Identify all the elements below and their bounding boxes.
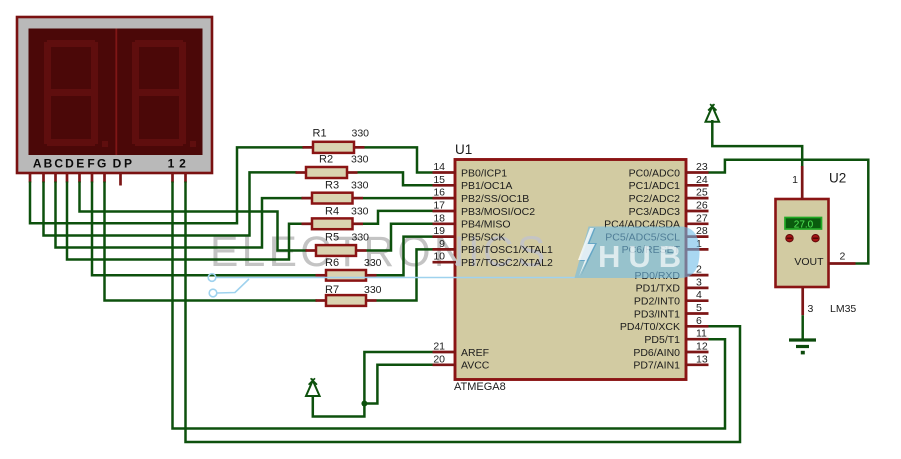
U2 pin 2 stub bbox=[829, 262, 856, 265]
svg-text:PC1/ADC1: PC1/ADC1 bbox=[629, 180, 681, 192]
transistor U2 LM35 body bbox=[776, 199, 829, 287]
svg-text:1: 1 bbox=[792, 174, 798, 186]
wire R2 to pin 15 bbox=[358, 172, 433, 185]
wire display pin1 to PD5 bbox=[173, 182, 726, 429]
U1 left pin 15 stub bbox=[433, 174, 457, 186]
U1 right pin 23 stub bbox=[685, 161, 709, 173]
svg-text:330: 330 bbox=[352, 128, 370, 140]
node AREF/AVCC junction bbox=[361, 401, 367, 407]
wire segment F to R6 bbox=[92, 182, 317, 276]
svg-text:PD4/T0/XCK: PD4/T0/XCK bbox=[620, 321, 680, 333]
svg-text:23: 23 bbox=[696, 161, 708, 173]
svg-text:6: 6 bbox=[696, 315, 702, 327]
svg-text:B: B bbox=[44, 157, 53, 171]
svg-text:D: D bbox=[113, 157, 122, 171]
svg-text:27: 27 bbox=[696, 212, 708, 224]
svg-text:13: 13 bbox=[696, 353, 708, 365]
U1 right pin 28 stub bbox=[685, 225, 709, 237]
wire AREF to node bbox=[364, 352, 432, 404]
display inner dark area bbox=[29, 29, 203, 156]
U1 left pin 10 stub bbox=[433, 251, 457, 263]
svg-text:27.0: 27.0 bbox=[794, 219, 814, 230]
wire AVCC to node bbox=[364, 365, 432, 404]
svg-text:ATMEGA8: ATMEGA8 bbox=[454, 381, 506, 393]
U1 right pin 12 stub bbox=[685, 341, 709, 353]
svg-text:U1: U1 bbox=[455, 142, 472, 157]
wire R5 to pin 18 bbox=[367, 224, 433, 251]
U2 pin 1 stub bbox=[801, 166, 804, 200]
wire R1 to pin 14 bbox=[365, 147, 433, 172]
wire R6 to pin 19 bbox=[377, 237, 433, 276]
svg-text:A: A bbox=[33, 157, 42, 171]
U1 right pin 27 stub bbox=[685, 212, 709, 224]
display pin D stub bbox=[66, 173, 69, 183]
svg-text:28: 28 bbox=[696, 225, 708, 237]
resistor R5 bbox=[306, 232, 370, 256]
svg-text:2: 2 bbox=[840, 251, 846, 263]
svg-text:PB2/SS/OC1B: PB2/SS/OC1B bbox=[461, 193, 529, 205]
U1 left pin 9 stub bbox=[433, 238, 457, 250]
svg-text:R4: R4 bbox=[325, 206, 339, 218]
U1 right pin 13 stub bbox=[685, 353, 709, 365]
svg-text:PB4/MISO: PB4/MISO bbox=[461, 219, 511, 231]
svg-text:330: 330 bbox=[364, 257, 382, 269]
svg-text:17: 17 bbox=[433, 200, 445, 212]
wire power arrow to U2 pin1 bbox=[712, 120, 802, 167]
wire R3 to pin 16 bbox=[363, 197, 433, 200]
svg-text:25: 25 bbox=[696, 187, 708, 199]
display pin P2 stub bbox=[184, 173, 187, 183]
display pin C stub bbox=[54, 173, 57, 183]
svg-text:1: 1 bbox=[168, 157, 175, 171]
watermark banner (decorative) bbox=[208, 227, 699, 297]
display pin DP stub bbox=[119, 173, 122, 186]
svg-text:PB6/TOSC1/XTAL1: PB6/TOSC1/XTAL1 bbox=[461, 244, 553, 256]
svg-text:26: 26 bbox=[696, 200, 708, 212]
svg-text:PD3/INT1: PD3/INT1 bbox=[634, 308, 680, 320]
svg-text:G: G bbox=[97, 157, 106, 171]
display right digit segments bbox=[132, 40, 196, 147]
svg-text:PD2/INT0: PD2/INT0 bbox=[634, 296, 680, 308]
U1 right pin 4 stub bbox=[685, 289, 709, 301]
U1 left pin 18 stub bbox=[433, 212, 457, 224]
U2 reference label bbox=[829, 171, 846, 186]
wire segment E to R5 bbox=[80, 182, 307, 251]
svg-text:11: 11 bbox=[696, 328, 707, 340]
svg-text:18: 18 bbox=[433, 212, 445, 224]
ground bbox=[789, 340, 816, 354]
svg-text:PD1/TXD: PD1/TXD bbox=[636, 283, 681, 295]
wire node to power arrow bbox=[313, 397, 365, 417]
display pin F stub bbox=[91, 173, 94, 183]
U2 pin 3 stub bbox=[801, 287, 804, 315]
U1 reference label bbox=[455, 142, 472, 157]
wire segment A to R1 bbox=[30, 147, 304, 223]
wire R4 to pin 17 bbox=[363, 211, 433, 224]
svg-text:330: 330 bbox=[351, 206, 369, 218]
svg-text:R2: R2 bbox=[319, 154, 333, 166]
U1 right pin names bbox=[604, 167, 680, 371]
watermark (decorative) bbox=[210, 229, 549, 276]
wire U2 pin3 to ground bbox=[801, 315, 804, 340]
svg-text:PC0/ADC0: PC0/ADC0 bbox=[629, 167, 681, 179]
resistor R1 bbox=[303, 128, 370, 153]
U1 left pin 16 stub bbox=[433, 187, 457, 199]
svg-text:20: 20 bbox=[433, 353, 445, 365]
svg-text:D: D bbox=[65, 157, 74, 171]
svg-text:330: 330 bbox=[351, 180, 369, 192]
svg-text:PD5/T1: PD5/T1 bbox=[644, 334, 680, 346]
svg-text:R1: R1 bbox=[313, 128, 327, 140]
svg-text:R6: R6 bbox=[325, 257, 339, 269]
svg-text:U2: U2 bbox=[829, 171, 846, 186]
svg-text:P: P bbox=[124, 157, 132, 171]
svg-text:PD6/AIN0: PD6/AIN0 bbox=[633, 347, 680, 359]
U1 left pin names bbox=[461, 167, 553, 371]
wire PC0 to U2 VOUT bbox=[708, 160, 868, 264]
U1 right pin 6 stub bbox=[685, 315, 709, 327]
wire segment B to R2 bbox=[44, 172, 297, 235]
svg-text:9: 9 bbox=[439, 238, 445, 250]
display pin A stub bbox=[29, 173, 32, 183]
svg-text:R7: R7 bbox=[325, 284, 339, 296]
U1 left pin 20 stub bbox=[433, 353, 457, 365]
wire segment C to R3 bbox=[56, 182, 303, 248]
7-segment display module frame bbox=[17, 17, 212, 173]
power symbol VCC left bbox=[306, 378, 320, 396]
op-amp U1 ATMEGA8 body bbox=[455, 160, 686, 380]
svg-text:330: 330 bbox=[364, 284, 382, 296]
svg-text:HUB: HUB bbox=[598, 239, 689, 274]
display pin B stub bbox=[42, 173, 45, 183]
wire segment G to R7 bbox=[105, 182, 317, 301]
svg-text:21: 21 bbox=[433, 341, 445, 353]
svg-text:R3: R3 bbox=[325, 180, 339, 192]
svg-text:15: 15 bbox=[433, 174, 445, 186]
svg-text:4: 4 bbox=[696, 289, 702, 301]
svg-text:PC3/ADC3: PC3/ADC3 bbox=[629, 206, 681, 218]
display pin G stub bbox=[103, 173, 106, 183]
resistor R6 bbox=[316, 257, 382, 281]
svg-text:PB0/ICP1: PB0/ICP1 bbox=[461, 167, 507, 179]
svg-text:F: F bbox=[87, 157, 94, 171]
svg-text:PB7/TOSC2/XTAL2: PB7/TOSC2/XTAL2 bbox=[461, 257, 553, 269]
svg-text:3: 3 bbox=[696, 276, 702, 288]
svg-text:19: 19 bbox=[433, 225, 445, 237]
svg-text:PB5/SCK: PB5/SCK bbox=[461, 231, 505, 243]
U1 value label ATMEGA8 bbox=[454, 381, 506, 393]
U2 value label LM35 bbox=[830, 303, 856, 315]
display pin E stub bbox=[78, 173, 81, 183]
svg-text:PB1/OC1A: PB1/OC1A bbox=[461, 180, 512, 192]
U1 right pin 1 stub bbox=[685, 238, 709, 250]
U1 left pin 19 stub bbox=[433, 225, 457, 237]
svg-text:2: 2 bbox=[179, 157, 186, 171]
resistor R4 bbox=[302, 206, 369, 230]
resistor R7 bbox=[316, 284, 382, 306]
wire segment D to R4 bbox=[67, 182, 303, 260]
svg-text:14: 14 bbox=[433, 161, 445, 173]
U1 right pin 3 stub bbox=[685, 276, 709, 288]
U1 right pin 26 stub bbox=[685, 200, 709, 212]
U1 right pin 5 stub bbox=[685, 302, 709, 314]
U1 left pin 17 stub bbox=[433, 200, 457, 212]
svg-text:AREF: AREF bbox=[461, 347, 489, 359]
U1 right pin 25 stub bbox=[685, 187, 709, 199]
U2 pin 1 number bbox=[792, 174, 798, 186]
svg-text:VOUT: VOUT bbox=[794, 256, 824, 268]
resistor R2 bbox=[296, 154, 369, 179]
svg-text:330: 330 bbox=[352, 232, 370, 244]
svg-text:10: 10 bbox=[433, 251, 445, 263]
svg-text:R5: R5 bbox=[325, 232, 339, 244]
svg-text:PD7/AIN1: PD7/AIN1 bbox=[633, 360, 680, 372]
U1 left pin 14 stub bbox=[433, 161, 457, 173]
U1 right pin 2 stub bbox=[685, 264, 709, 276]
svg-text:AVCC: AVCC bbox=[461, 360, 490, 372]
display pin P1 stub bbox=[171, 173, 174, 183]
svg-text:330: 330 bbox=[351, 154, 369, 166]
svg-text:PC2/ADC2: PC2/ADC2 bbox=[629, 193, 681, 205]
svg-text:16: 16 bbox=[433, 187, 445, 199]
svg-text:LM35: LM35 bbox=[830, 303, 856, 315]
svg-text:E: E bbox=[76, 157, 84, 171]
U2 pin 3 number bbox=[808, 303, 814, 315]
svg-text:PB3/MOSI/OC2: PB3/MOSI/OC2 bbox=[461, 206, 535, 218]
resistor R3 bbox=[302, 180, 369, 204]
svg-text:3: 3 bbox=[808, 303, 814, 315]
U1 right pin 24 stub bbox=[685, 174, 709, 186]
U1 left pin 21 stub bbox=[433, 341, 457, 353]
svg-text:12: 12 bbox=[696, 341, 708, 353]
svg-text:5: 5 bbox=[696, 302, 702, 314]
display left digit segments bbox=[44, 40, 108, 147]
wire display pin2 to PD4 bbox=[186, 182, 741, 443]
U1 right pin 11 stub bbox=[685, 328, 709, 340]
svg-text:C: C bbox=[54, 157, 63, 171]
svg-text:24: 24 bbox=[696, 174, 708, 186]
wire R7 to pin 9 bbox=[377, 249, 433, 300]
display pin labels ABCDEFG DP 1 2 bbox=[33, 157, 186, 171]
U2 pin 2 number bbox=[840, 251, 846, 263]
power symbol VCC right bbox=[706, 104, 720, 122]
